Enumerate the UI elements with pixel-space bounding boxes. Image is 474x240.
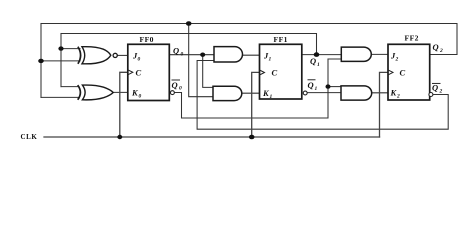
svg-text:Q: Q (173, 46, 179, 56)
svg-text:CLK: CLK (21, 133, 38, 141)
svg-text:1: 1 (315, 86, 318, 92)
svg-text:FF2: FF2 (405, 34, 419, 43)
svg-text:1: 1 (269, 57, 272, 63)
svg-text:1: 1 (270, 94, 273, 100)
svg-text:0: 0 (179, 86, 182, 92)
svg-text:0: 0 (139, 94, 142, 100)
svg-text:Q: Q (310, 56, 316, 66)
svg-text:1: 1 (317, 62, 320, 68)
svg-text:0: 0 (138, 57, 141, 63)
svg-text:Q: Q (432, 83, 438, 93)
svg-text:2: 2 (396, 94, 400, 100)
svg-text:C: C (136, 68, 142, 78)
svg-text:C: C (272, 68, 278, 78)
svg-text:Q: Q (433, 42, 439, 52)
svg-text:Q: Q (172, 80, 178, 90)
svg-text:FF1: FF1 (274, 35, 288, 44)
svg-text:2: 2 (395, 57, 399, 63)
svg-text:Q: Q (308, 80, 314, 90)
svg-text:C: C (400, 68, 406, 78)
svg-text:0: 0 (181, 52, 184, 58)
svg-text:2: 2 (439, 88, 443, 94)
svg-text:FF0: FF0 (140, 35, 154, 44)
svg-text:2: 2 (439, 48, 443, 54)
